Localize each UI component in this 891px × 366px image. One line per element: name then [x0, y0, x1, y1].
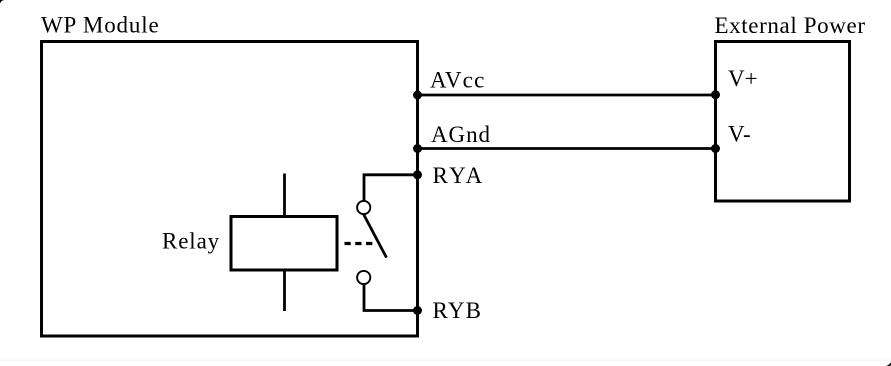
node V+ pin: [711, 90, 720, 99]
switch S1 top contact: [357, 201, 370, 214]
module box U1 WP Module: [42, 42, 418, 337]
wire AGnd to V-: [418, 147, 716, 150]
wire RYA to switch top: [364, 175, 418, 201]
wire relay coil bottom lead: [283, 270, 286, 311]
mechanical link relay to switch (dashed): [345, 242, 374, 245]
svg-text:External Power: External Power: [715, 13, 866, 38]
svg-text:WP Module: WP Module: [41, 13, 160, 38]
module box External Power supply: [716, 42, 850, 202]
relay K1 coil body: [231, 217, 337, 271]
svg-text:RYB: RYB: [433, 298, 483, 323]
node RYB pin: [413, 306, 422, 315]
svg-text:Relay: Relay: [162, 229, 220, 254]
svg-text:V+: V+: [728, 66, 758, 91]
svg-text:AGnd: AGnd: [431, 122, 491, 147]
node V- pin: [711, 144, 720, 153]
svg-text:RYA: RYA: [433, 163, 485, 188]
wire relay coil top lead: [283, 174, 286, 217]
wire RYB to switch bottom: [364, 285, 418, 311]
svg-text:AVcc: AVcc: [430, 68, 485, 93]
node AVcc pin: [413, 91, 422, 100]
switch S1 blade: [364, 215, 387, 258]
node AGnd pin: [413, 144, 422, 153]
wire AVcc to V+: [418, 94, 716, 97]
switch S1 bottom contact: [357, 271, 370, 284]
svg-text:V-: V-: [728, 122, 751, 147]
node RYA pin: [413, 170, 422, 179]
